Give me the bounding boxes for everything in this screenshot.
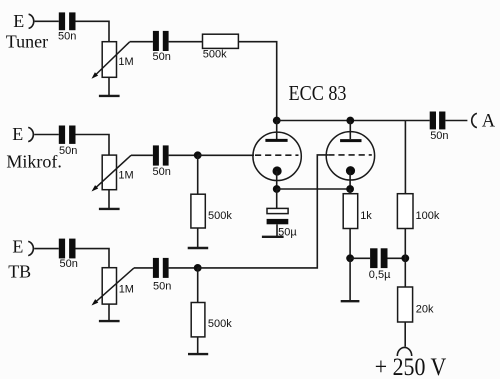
output jack connector (A) — [472, 113, 477, 127]
wire — [131, 154, 153, 156]
capacitor 50n (TB wiper) — [153, 258, 171, 293]
potentiometer 1M (Mikrof) — [92, 155, 134, 191]
svg-text:A: A — [482, 112, 496, 132]
wire — [350, 257, 370, 259]
capacitor 50n (Mikrof wiper) — [153, 145, 171, 177]
wire — [76, 21, 110, 41]
junction (cathode V1b) — [346, 185, 354, 193]
ground (TB pot) — [99, 320, 120, 322]
svg-text:+ 250 V: + 250 V — [375, 352, 447, 379]
ground (50µ) — [262, 236, 284, 238]
ground (Mikrof pot) — [99, 208, 120, 210]
resistor 1k (cathode V1b) — [343, 194, 372, 229]
triode V1b anode — [340, 121, 361, 141]
triode V1a cathode — [273, 166, 282, 189]
potentiometer 1M (TB) — [92, 268, 135, 306]
svg-text:50n: 50n — [153, 280, 171, 292]
triode V1a grid — [255, 154, 299, 156]
wire (anode bus) — [277, 120, 406, 122]
svg-text:50n: 50n — [153, 51, 171, 63]
svg-text:E: E — [13, 11, 24, 31]
svg-text:ECC 83: ECC 83 — [289, 81, 347, 105]
junction (B+ node) — [401, 254, 409, 262]
wire — [108, 304, 110, 320]
input jack connector (TB) — [28, 241, 33, 255]
svg-text:TB: TB — [8, 261, 31, 281]
wire — [197, 155, 199, 194]
wire (cathode bus) — [277, 188, 350, 190]
resistor 20k (B+ dropper) — [398, 287, 434, 322]
wire — [35, 20, 59, 22]
triode V1b grid — [328, 154, 372, 156]
supply connector (+250V) — [397, 347, 411, 356]
svg-text:Mikrof.: Mikrof. — [6, 151, 62, 171]
wire — [169, 154, 198, 156]
wire — [349, 258, 351, 300]
svg-text:1k: 1k — [360, 210, 372, 222]
junction (Mikrof grid node) — [194, 151, 202, 159]
potentiometer 1M (Tuner) — [92, 42, 134, 79]
input jack connector (Tuner) — [29, 14, 34, 28]
resistor 500k (Mikrof grid leak) — [191, 194, 232, 228]
ground (Tuner pot) — [99, 95, 120, 97]
input jack connector (Mikrof) — [28, 127, 33, 141]
wire — [34, 248, 59, 250]
wire — [238, 42, 276, 118]
wire — [404, 121, 406, 194]
resistor 500k (Tuner mix) — [203, 34, 239, 60]
ground (cathode network) — [341, 300, 360, 302]
wire — [276, 224, 278, 236]
svg-text:500k: 500k — [203, 49, 227, 61]
wire — [404, 322, 406, 347]
capacitor 0,5µ (B+ decoupling) — [369, 248, 391, 281]
wire — [108, 190, 110, 209]
wire — [349, 189, 351, 194]
wire — [198, 154, 254, 156]
junction (plate node, triode 1) — [273, 117, 281, 125]
wire — [76, 249, 110, 268]
capacitor 50n (TB input) — [59, 239, 78, 270]
svg-text:E: E — [12, 237, 23, 257]
svg-text:20k: 20k — [416, 303, 434, 315]
wire — [130, 41, 153, 43]
svg-text:500k: 500k — [208, 318, 232, 330]
capacitor 50n (Tuner input) — [58, 12, 76, 42]
ground (TB 500k) — [188, 353, 208, 355]
svg-text:1M: 1M — [119, 284, 134, 296]
resistor 500k (TB grid leak) — [191, 303, 232, 337]
wire — [445, 120, 467, 122]
svg-text:E: E — [12, 124, 23, 144]
wire — [349, 229, 351, 259]
wire — [197, 268, 199, 303]
capacitor 50n (Mikrof input) — [59, 126, 78, 157]
wire — [134, 267, 153, 269]
ground (Mikrof 500k) — [188, 247, 209, 249]
wire — [108, 77, 110, 95]
wire — [276, 189, 278, 208]
svg-text:Tuner: Tuner — [6, 31, 48, 51]
triode V1b cathode — [346, 166, 355, 189]
svg-text:1M: 1M — [118, 170, 133, 182]
junction (cathode V1a) — [273, 185, 281, 193]
svg-text:1M: 1M — [118, 56, 133, 68]
svg-text:50n: 50n — [59, 145, 77, 157]
svg-text:500k: 500k — [208, 210, 232, 222]
wire — [76, 135, 110, 156]
svg-text:50n: 50n — [430, 130, 448, 142]
svg-text:50n: 50n — [153, 166, 171, 178]
svg-text:50n: 50n — [60, 258, 78, 270]
wire — [34, 134, 59, 136]
capacitor 50µ (cathode bypass) — [267, 208, 298, 238]
junction (plate node, triode 2) — [346, 117, 354, 125]
wire — [169, 267, 198, 269]
capacitor 50n (output) — [430, 112, 449, 143]
junction (TB grid node) — [194, 264, 202, 272]
wire — [169, 41, 203, 43]
svg-text:50n: 50n — [58, 30, 76, 42]
wire — [198, 155, 329, 268]
svg-text:100k: 100k — [416, 210, 440, 222]
wire — [405, 120, 429, 122]
junction (1k / 0,5µ node) — [346, 254, 354, 262]
wire — [404, 229, 406, 288]
capacitor 50n (Tuner wiper) — [153, 31, 171, 63]
wire — [388, 257, 406, 259]
resistor 100k (anode load) — [397, 194, 439, 229]
triode V1a anode — [265, 121, 287, 141]
triode V1b envelope — [326, 132, 374, 180]
svg-text:0,5µ: 0,5µ — [369, 269, 391, 281]
wire — [197, 228, 199, 247]
wire — [197, 337, 199, 354]
triode V1a envelope — [253, 132, 301, 180]
